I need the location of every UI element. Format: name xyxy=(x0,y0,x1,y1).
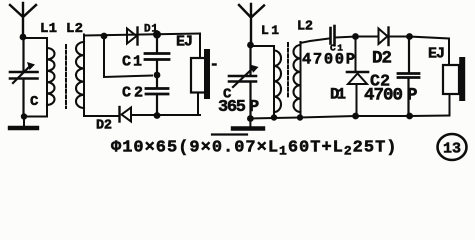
svg-text:13: 13 xyxy=(443,141,461,158)
capacitor C2 (left) xyxy=(146,76,168,116)
svg-text:Φ10×65(9×0.07×L160T+L225T): Φ10×65(9×0.07×L160T+L225T) xyxy=(111,139,397,159)
ground (right) xyxy=(233,119,263,129)
capacitor C1 (right, series) xyxy=(331,26,335,45)
node: D2 / C2 / EJ junction (right) xyxy=(406,33,413,40)
transformer core (right, dashed) xyxy=(287,43,289,97)
svg-text:EJ: EJ xyxy=(176,34,193,51)
svg-text:L2: L2 xyxy=(297,20,313,35)
svg-text:EJ: EJ xyxy=(428,46,445,63)
node: C2 bottom on ground rail (right) xyxy=(406,113,413,120)
wire: top rail (left circuit) xyxy=(84,34,200,36)
coil L2 (right) xyxy=(294,42,301,118)
node: top rail / C1 junction (left) xyxy=(153,31,161,39)
coil L2 (left) xyxy=(76,35,84,117)
svg-text:365: 365 xyxy=(218,98,246,117)
node: D1 bottom on ground rail (right) xyxy=(352,113,359,120)
variable capacitor C (left) xyxy=(10,39,38,117)
coil L1 (left) xyxy=(47,38,54,117)
antenna (right circuit) xyxy=(239,4,264,45)
svg-text:L2: L2 xyxy=(66,21,83,37)
wire: L2 top to C1 (right top rail left segment) xyxy=(301,39,330,44)
svg-text:4700P: 4700P xyxy=(302,51,355,69)
stray scan speck xyxy=(213,63,216,66)
wire: C1 to D1/D2 node xyxy=(336,37,356,38)
svg-text:C1: C1 xyxy=(122,54,142,71)
svg-text:D1: D1 xyxy=(330,86,346,104)
node: bottom rail / C2 junction (left) xyxy=(154,112,161,119)
diode D2 (right, series, pointing right) xyxy=(379,28,389,46)
svg-text:C: C xyxy=(30,94,39,110)
svg-text:P: P xyxy=(249,98,259,117)
wire: ground rail (right circuit bottom) xyxy=(250,116,449,119)
capacitor C1 (left) xyxy=(145,35,169,74)
wire: D2 to output node xyxy=(390,36,410,38)
wire: feed from top rail to C1/C2 midpoint xyxy=(104,36,152,77)
transformer core (left, dashed) xyxy=(65,45,67,108)
wire: bottom rail left segment (L2 bottom to D2) xyxy=(84,115,119,117)
wire: node to D2 xyxy=(356,36,379,38)
variable capacitor C (right) xyxy=(229,46,259,118)
wire antenna to L1 top xyxy=(23,37,47,39)
svg-text:D2: D2 xyxy=(372,49,392,69)
wire L1 bottom to ground node xyxy=(24,116,47,118)
earphone jack EJ (left) xyxy=(191,34,207,116)
diode D1 (left circuit, series in top rail) xyxy=(127,28,138,45)
coil L1 (right) xyxy=(274,46,281,118)
earphone jack EJ (right) xyxy=(443,60,462,116)
node: antenna junction (left) xyxy=(20,34,27,41)
svg-text:P: P xyxy=(407,86,418,106)
svg-text:L1: L1 xyxy=(40,21,57,37)
wire: bottom rail right segment (left circuit) xyxy=(131,114,200,116)
ground (left) xyxy=(10,117,37,128)
wire: top rail right segment to EJ (right) xyxy=(410,37,450,66)
svg-text:4700: 4700 xyxy=(364,86,403,106)
antenna (left circuit) xyxy=(10,3,36,37)
capacitor C2 (right, shunt) xyxy=(398,37,419,116)
overline above 0.07 in bottom note xyxy=(212,133,247,135)
node: C1 / D1 / D2 junction (right) xyxy=(352,33,359,40)
node on top rail (left, feed tap) xyxy=(101,33,108,40)
node: ground junction (right) xyxy=(247,115,254,122)
diode D1 (right, shunt, cathode up) xyxy=(347,37,368,116)
node: antenna junction (right) xyxy=(247,42,254,49)
node: C / L1 / ground junction xyxy=(21,113,27,119)
figure number 13 (circled) xyxy=(438,134,467,160)
node: L2 bottom on ground rail (right) xyxy=(297,114,303,120)
svg-text:D2: D2 xyxy=(96,119,112,134)
node: L1 bottom on ground rail (right) xyxy=(271,114,277,120)
node: C1/C2 midpoint xyxy=(154,72,161,79)
diode D2 (left circuit, in bottom rail, pointing left) xyxy=(120,107,132,122)
wire antenna to L1 top (right) xyxy=(251,46,275,51)
